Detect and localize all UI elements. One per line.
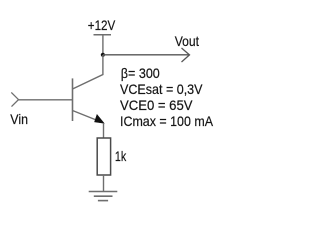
svg-text:β= 300: β= 300 — [121, 65, 160, 81]
Vin label — [10, 111, 28, 127]
resistor R1 body — [97, 138, 110, 175]
input terminal chevron — [11, 92, 18, 106]
svg-text:Vin: Vin — [10, 111, 28, 127]
power rail bar — [94, 34, 112, 36]
wire: Vin terminal to base — [19, 99, 73, 101]
resistor R1 value label 1k — [115, 148, 127, 164]
Vout label — [175, 33, 199, 49]
wire: emitter to resistor R1 — [103, 123, 105, 138]
transistor Q1 base bar — [72, 78, 74, 121]
wire: node A to Vout — [103, 54, 189, 56]
transistor Q1 emitter arrow (NPN) — [95, 115, 104, 124]
svg-text:VCEsat = 0,3V: VCEsat = 0,3V — [120, 81, 203, 97]
wire: +12V rail to node A — [102, 35, 104, 55]
Vout arrow head — [182, 48, 190, 62]
wire: resistor R1 to ground — [103, 175, 105, 192]
svg-text:Vout: Vout — [175, 33, 199, 49]
ground — [89, 192, 118, 201]
svg-text:1k: 1k — [115, 148, 127, 164]
transistor Q1 emitter wire — [73, 111, 101, 122]
node A (collector junction dot) — [101, 53, 105, 57]
transistor Q1 collector wire — [73, 55, 103, 89]
svg-text:ICmax = 100 mA: ICmax = 100 mA — [120, 113, 214, 129]
svg-text:VCE0 = 65V: VCE0 = 65V — [120, 97, 193, 113]
+12V supply label — [88, 17, 116, 33]
transistor parameters text block — [120, 65, 214, 129]
svg-text:+12V: +12V — [88, 17, 116, 33]
